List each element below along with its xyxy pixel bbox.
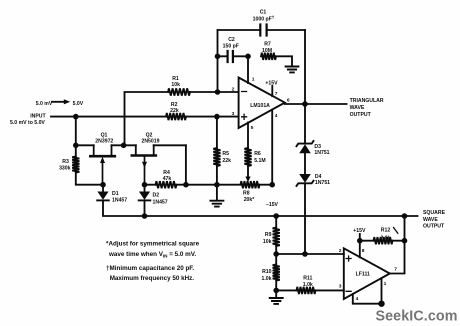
- wire comparator output to square rail: [390, 216, 405, 274]
- label R7 value: [262, 42, 272, 54]
- capacitor C1: [260, 25, 266, 36]
- svg-text:1N751: 1N751: [314, 150, 329, 156]
- svg-text:10k: 10k: [263, 239, 272, 245]
- label R11 value: [303, 275, 313, 288]
- wire R3 bottom corner to D1 node: [76, 173, 103, 185]
- svg-text:20k*: 20k*: [244, 197, 255, 203]
- wire C2 row: [218, 55, 249, 57]
- resistor R4: [156, 181, 177, 188]
- note dagger: [106, 265, 194, 282]
- diode D1 1N457: [102, 185, 104, 192]
- svg-text:22k: 22k: [222, 158, 231, 164]
- svg-text:1N751: 1N751: [315, 180, 330, 186]
- node D2 rail junction: [142, 213, 148, 219]
- svg-text:2: 2: [339, 248, 342, 254]
- wire pin1 stub: [247, 56, 249, 83]
- svg-text:3: 3: [339, 284, 342, 290]
- svg-text:4: 4: [275, 113, 278, 119]
- diode D3 zener: [297, 141, 314, 153]
- label input levels: [36, 101, 84, 107]
- node R9/R10 junction: [273, 251, 279, 257]
- node R12 right junction: [402, 238, 408, 244]
- wire pin4 vertical to -15V node: [271, 110, 273, 185]
- node Q1 rail left junction: [73, 143, 79, 149]
- svg-text:TRIANGULAR: TRIANGULAR: [350, 98, 384, 104]
- pin numbers U1: [232, 77, 290, 132]
- op-amp U1 LM101A: [239, 78, 285, 129]
- label R9 value: [263, 232, 272, 245]
- svg-text:1: 1: [252, 77, 255, 83]
- wire feedback loop right vertical: [304, 30, 306, 104]
- wire R1 branch (vertical from Q1 rail up, horizontal to pin 2): [125, 92, 239, 145]
- svg-text:6: 6: [287, 98, 290, 104]
- svg-text:7: 7: [394, 267, 397, 273]
- resistor R7: [261, 53, 276, 60]
- svg-text:1000 pF†: 1000 pF†: [253, 15, 275, 23]
- label triangular output: [350, 98, 384, 118]
- resistor R5: [213, 148, 220, 166]
- svg-text:D2: D2: [153, 193, 160, 199]
- resistor R3: [72, 145, 79, 172]
- svg-text:22k: 22k: [170, 108, 179, 114]
- label R8 value: [243, 191, 254, 203]
- label D4: [315, 174, 330, 186]
- svg-text:3.0k: 3.0k: [380, 235, 390, 241]
- resistor R10: [273, 254, 280, 290]
- svg-text:Maximum frequency 50 kHz.: Maximum frequency 50 kHz.: [110, 275, 195, 282]
- wire input vertical down to Q1 rail: [75, 117, 77, 146]
- svg-text:*Adjust for symmetrical square: *Adjust for symmetrical square: [106, 241, 200, 248]
- node D2 junction: [142, 182, 148, 188]
- label C1 value: [253, 10, 275, 23]
- wire pin1 stub: [381, 278, 383, 304]
- svg-text:4: 4: [356, 296, 359, 302]
- svg-text:8: 8: [362, 248, 365, 254]
- svg-text:1.0k: 1.0k: [303, 282, 313, 288]
- svg-text:150 pF: 150 pF: [223, 44, 239, 50]
- ground comparator divider: [275, 290, 277, 297]
- node R10/R11/ground junction: [273, 288, 279, 294]
- wire zener string vertical: [304, 104, 306, 254]
- label -15V U1: [266, 202, 279, 208]
- label D2: [153, 193, 168, 206]
- svg-text:C1: C1: [260, 10, 267, 16]
- svg-text:5.0 mV to 5.0V: 5.0 mV to 5.0V: [10, 120, 45, 126]
- input arrow: [52, 101, 65, 103]
- svg-text:2N5019: 2N5019: [141, 138, 159, 144]
- svg-text:5.0V: 5.0V: [73, 101, 84, 107]
- resistor R6: [244, 148, 251, 166]
- svg-text:INPUT: INPUT: [30, 114, 46, 120]
- resistor R2: [166, 113, 186, 120]
- svg-text:+15V: +15V: [353, 228, 366, 234]
- wire R7 to ground: [276, 56, 292, 66]
- svg-text:R4: R4: [163, 170, 170, 176]
- node R4/Q2 junction: [183, 182, 189, 188]
- svg-text:wave time when VIN = 5.0 mV.: wave time when VIN = 5.0 mV.: [108, 251, 196, 258]
- wire pin5 stub + R6 top: [247, 123, 249, 149]
- svg-text:R12: R12: [381, 228, 391, 234]
- node pin2 junction: [215, 89, 221, 95]
- svg-text:10k: 10k: [171, 82, 180, 88]
- svg-text:LF111: LF111: [356, 272, 370, 278]
- svg-text:R3: R3: [62, 159, 69, 165]
- svg-text:7: 7: [275, 91, 278, 97]
- wire R4 row: [145, 184, 273, 186]
- node square output junction: [402, 213, 408, 219]
- wire input horizontal to pin 3: [51, 116, 239, 118]
- wire square-wave bottom rail: [103, 200, 418, 216]
- label R4 value: [163, 170, 172, 182]
- wire comparator minus input: [276, 289, 344, 291]
- ground R7: [286, 67, 299, 73]
- svg-text:R9: R9: [265, 232, 272, 238]
- svg-text:R5: R5: [222, 151, 229, 157]
- node FET rail center junction: [121, 143, 127, 149]
- svg-text:10M: 10M: [262, 48, 272, 54]
- wire D2 to rail: [144, 200, 146, 216]
- label R2 value: [170, 102, 179, 114]
- svg-text:†Minimum capacitance 20 pF.: †Minimum capacitance 20 pF.: [106, 265, 194, 272]
- svg-text:5.0 mV: 5.0 mV: [36, 101, 53, 107]
- resistor R1: [168, 88, 190, 95]
- label square output: [423, 210, 446, 229]
- node R12 left junction: [357, 238, 363, 244]
- note asterisk: [106, 241, 200, 259]
- label R5 value: [222, 151, 231, 164]
- svg-text:5.1M: 5.1M: [254, 158, 265, 164]
- svg-text:R11: R11: [303, 275, 312, 281]
- node triangular output junction: [302, 101, 308, 107]
- label Q1: [95, 132, 113, 144]
- svg-text:R7: R7: [264, 42, 271, 48]
- svg-text:1N457: 1N457: [112, 198, 127, 204]
- svg-text:LM101A: LM101A: [250, 103, 270, 109]
- svg-text:2: 2: [232, 86, 235, 92]
- label R3 value: [59, 159, 71, 171]
- svg-text:R10: R10: [262, 269, 272, 275]
- svg-text:1.0k: 1.0k: [261, 276, 271, 282]
- svg-text:–15V: –15V: [266, 202, 279, 208]
- wire output pin6: [285, 103, 347, 105]
- node pin3 junction: [214, 114, 220, 120]
- wire pin7 stub: [271, 86, 273, 96]
- svg-text:OUTPUT: OUTPUT: [423, 224, 445, 230]
- wire R12 row: [360, 240, 405, 242]
- wire comparator plus input: [276, 253, 344, 255]
- svg-text:SQUARE: SQUARE: [423, 210, 446, 216]
- label INPUT: [10, 114, 46, 126]
- transistor Q2 2N5019: [132, 145, 156, 184]
- node -15V supply junction: [269, 182, 275, 188]
- svg-text:WAVE: WAVE: [423, 217, 438, 223]
- node R5/ground junction: [214, 182, 220, 188]
- pin numbers U2: [339, 248, 397, 302]
- svg-text:OUTPUT: OUTPUT: [350, 112, 372, 118]
- svg-text:R8: R8: [243, 191, 250, 197]
- wire R6 to wiper arrow: [247, 166, 249, 177]
- node input junction: [73, 114, 79, 120]
- svg-text:WAVE: WAVE: [350, 105, 365, 111]
- R12 pointer tick: [394, 228, 398, 234]
- label R10 value: [261, 269, 271, 282]
- svg-text:3: 3: [232, 111, 235, 117]
- node zener to comparator junction: [302, 251, 308, 257]
- wire FET drain rail: [76, 144, 186, 146]
- node R9 rail junction: [273, 213, 279, 219]
- svg-text:1N457: 1N457: [153, 200, 168, 206]
- resistor R12: [374, 237, 393, 244]
- op-amp U2 LF111: [344, 248, 390, 299]
- wire feedback loop left vertical: [217, 30, 219, 92]
- label C2 value: [223, 37, 239, 50]
- svg-text:330k: 330k: [59, 165, 71, 171]
- svg-text:D1: D1: [112, 191, 119, 197]
- wire feedback loop top: [218, 29, 306, 31]
- svg-text:R6: R6: [254, 151, 261, 157]
- svg-text:C2: C2: [228, 37, 235, 43]
- wire pin8 stub +15V: [359, 234, 361, 257]
- label +15V U1: [265, 80, 278, 86]
- resistor R8 potentiometer: [241, 181, 260, 188]
- node C2 left junction: [215, 54, 221, 60]
- diode D2 1N457: [144, 185, 146, 192]
- watermark SeekIC.com: [376, 308, 458, 324]
- capacitor C2: [228, 51, 233, 62]
- node C2/R7/pin1 junction: [245, 54, 251, 60]
- svg-text:+15V: +15V: [265, 80, 278, 86]
- label D3: [314, 144, 329, 156]
- svg-text:1: 1: [384, 281, 387, 287]
- svg-text:SeekIC.com: SeekIC.com: [376, 308, 458, 324]
- label R6 value: [254, 151, 265, 164]
- svg-text:5: 5: [251, 125, 254, 131]
- wire R5 vertical top: [216, 117, 218, 148]
- wire R5 bottom: [216, 166, 218, 185]
- node pin1/pin4 junction: [378, 301, 384, 307]
- wire Q2 drain down to R4 rail: [185, 145, 187, 184]
- diode D4 zener: [297, 174, 314, 186]
- resistor R11: [297, 287, 316, 294]
- label R12 value: [380, 228, 390, 242]
- label Q2: [141, 132, 159, 144]
- label R1 value: [171, 76, 180, 88]
- wire pin4 stub: [353, 294, 382, 304]
- svg-text:2N3972: 2N3972: [95, 138, 113, 144]
- label D1: [112, 191, 127, 204]
- ground main (R5 node): [216, 185, 218, 200]
- label +15V U2: [353, 228, 366, 234]
- transistor Q1 2N3972: [90, 145, 115, 184]
- svg-text:47k: 47k: [163, 176, 172, 182]
- node D1 junction: [100, 182, 106, 188]
- resistor R9: [273, 216, 280, 254]
